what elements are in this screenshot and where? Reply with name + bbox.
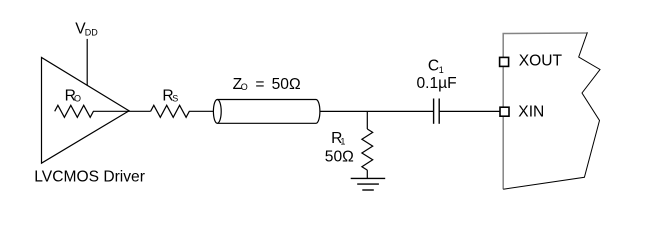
svg-text:C: C (428, 58, 439, 75)
svg-text:XIN: XIN (518, 104, 544, 121)
svg-text:O: O (74, 94, 81, 104)
svg-text:0.1µF: 0.1µF (417, 75, 457, 92)
svg-text:50Ω: 50Ω (325, 148, 354, 165)
svg-text:50Ω: 50Ω (272, 76, 301, 93)
svg-text:DD: DD (85, 28, 98, 38)
svg-text:XOUT: XOUT (519, 53, 563, 70)
svg-text:=: = (255, 76, 264, 93)
svg-text:O: O (241, 82, 248, 92)
svg-text:1: 1 (340, 137, 345, 147)
svg-text:S: S (172, 94, 178, 104)
svg-text:LVCMOS Driver: LVCMOS Driver (34, 169, 145, 186)
svg-text:1: 1 (439, 65, 444, 75)
